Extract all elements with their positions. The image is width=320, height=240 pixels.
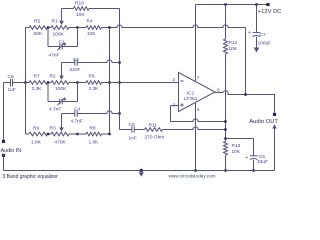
- terminal Audio IN: [2, 140, 5, 143]
- wire R10 left: [62, 8, 74, 10]
- wire band2 row to op-amp: [102, 82, 179, 84]
- svg-text:C1: C1: [59, 39, 65, 45]
- svg-text:C7: C7: [260, 32, 266, 38]
- label R4 value 10K: [87, 31, 96, 37]
- label C4: [74, 107, 80, 113]
- potentiometer R2: [51, 81, 78, 85]
- wire output: [215, 91, 275, 113]
- label C3 value 4.7nF: [49, 106, 61, 112]
- arrow R1 wiper: [59, 21, 64, 25]
- label Audio OUT: [249, 119, 278, 125]
- svg-text:10K: 10K: [232, 149, 241, 155]
- capacitor C3: [57, 98, 66, 106]
- label R13: [232, 143, 241, 149]
- svg-text:IC1: IC1: [187, 91, 195, 97]
- node band1-A junction: [108, 26, 111, 29]
- label R2 value 100K: [55, 86, 67, 92]
- label C2 value 22nF: [70, 67, 81, 73]
- svg-text:10K: 10K: [76, 12, 85, 18]
- caption www.circuitstoday.com: [169, 173, 216, 178]
- wire C2 to R2 wiper: [61, 63, 63, 76]
- wire C4 to R3 wiper: [61, 114, 63, 128]
- svg-text:R9: R9: [33, 126, 39, 132]
- label C7 value 100uF: [258, 41, 272, 47]
- svg-text:+: +: [245, 155, 248, 161]
- op-amp minus sign: [180, 80, 183, 82]
- resistor R6: [86, 81, 102, 85]
- arrow R2 wiper: [59, 76, 64, 80]
- label C7: [260, 32, 266, 38]
- resistor R9: [29, 132, 48, 136]
- wire R1-R4: [78, 27, 87, 29]
- svg-text:270 Ohm: 270 Ohm: [145, 135, 165, 141]
- wire R9-R3: [48, 133, 52, 135]
- wire C6 branch: [226, 139, 254, 156]
- wire pin7 supply: [195, 5, 197, 82]
- terminal audio in ground: [2, 154, 5, 157]
- label C6: [259, 154, 265, 160]
- svg-text:3.3K: 3.3K: [89, 86, 100, 92]
- wire C1 box right: [77, 28, 79, 47]
- svg-text:4.7nF: 4.7nF: [71, 118, 83, 124]
- wire C1 box bottom: [48, 46, 78, 48]
- label C5 value 1nF: [129, 135, 137, 141]
- resistor R4: [86, 26, 102, 30]
- svg-text:R7: R7: [34, 74, 40, 80]
- svg-text:R10: R10: [75, 1, 84, 7]
- ground symbol: [139, 169, 144, 177]
- wire R3-R8: [78, 133, 87, 135]
- wire pin3 stub: [171, 105, 179, 107]
- label R6: [89, 74, 95, 80]
- svg-text:R11: R11: [149, 123, 158, 129]
- wire R2-R6: [78, 82, 87, 84]
- svg-text:C2: C2: [73, 57, 79, 63]
- svg-text:50K: 50K: [34, 31, 43, 37]
- wire +12V rail: [196, 4, 269, 6]
- resistor R11: [145, 128, 163, 132]
- label C6 value 33uF: [257, 159, 268, 165]
- svg-text:4.7nF: 4.7nF: [49, 106, 61, 112]
- label pin 6: [217, 88, 220, 94]
- wire band3 left: [26, 133, 30, 135]
- label R11: [149, 123, 158, 129]
- capacitor C8: [11, 79, 13, 87]
- wire C3 box right: [77, 83, 79, 102]
- svg-text:1uF: 1uF: [8, 87, 16, 93]
- label R8: [90, 126, 96, 132]
- wire bias column: [225, 54, 227, 142]
- wire C8 to rail: [13, 82, 26, 84]
- resistor R12: [224, 39, 228, 54]
- svg-text:R4: R4: [87, 18, 93, 24]
- svg-text:R2: R2: [50, 74, 56, 80]
- capacitor C7: [253, 33, 261, 37]
- svg-text:47nF: 47nF: [49, 53, 60, 59]
- label C2: [73, 57, 79, 63]
- svg-text:R6: R6: [89, 74, 95, 80]
- svg-text:R3: R3: [50, 126, 56, 132]
- label R9 value 1.8K: [31, 140, 42, 146]
- capacitor C1: [57, 43, 66, 51]
- arrow audio out ground: [272, 124, 277, 128]
- wire C7 bottom lead: [256, 37, 258, 48]
- label C1: [59, 39, 65, 45]
- label C8: [8, 74, 14, 80]
- wire pin4 to ground: [195, 102, 197, 170]
- node R2 left: [47, 81, 50, 84]
- svg-text:100K: 100K: [55, 86, 67, 92]
- svg-text:R12: R12: [229, 40, 238, 46]
- wire output column: [245, 28, 247, 95]
- label R7: [34, 74, 40, 80]
- wire band2 left: [26, 82, 30, 84]
- svg-text:1.8K: 1.8K: [89, 140, 100, 146]
- wire audio in ground: [3, 155, 5, 170]
- label R9: [33, 126, 39, 132]
- capacitor C5: [132, 126, 134, 132]
- svg-text:470K: 470K: [55, 140, 67, 146]
- ground arrow C7: [254, 48, 260, 53]
- wire band1 row to output column: [102, 25, 246, 28]
- svg-text:+: +: [248, 30, 251, 36]
- wire R1 wiper: [61, 9, 63, 21]
- wire R10 right to B column: [89, 8, 120, 10]
- wire column B: [119, 9, 121, 130]
- node B-C4: [118, 112, 121, 115]
- svg-text:R8: R8: [90, 126, 96, 132]
- node R1 right: [76, 26, 79, 29]
- wire audio-in row: [4, 82, 11, 84]
- wire pin3 to bias node: [171, 119, 226, 122]
- label R10: [75, 1, 84, 7]
- potentiometer R3: [51, 132, 78, 136]
- wire R12 top lead: [225, 5, 227, 40]
- node output-band1: [244, 93, 247, 96]
- svg-text:7: 7: [197, 76, 200, 82]
- node B-C2: [118, 61, 121, 64]
- node A-band2: [108, 81, 111, 84]
- svg-text:3.3K: 3.3K: [32, 86, 43, 92]
- wire C4 row: [62, 111, 120, 114]
- wire band3 to column A: [102, 133, 110, 135]
- label +12V DC: [258, 9, 282, 15]
- label R5: [34, 18, 40, 24]
- resistor R8: [86, 132, 102, 136]
- op-amp plus sign: [180, 103, 183, 106]
- node R3 right: [76, 133, 79, 136]
- node R11-bias: [224, 128, 227, 131]
- label LF351: [184, 96, 198, 102]
- op-amp IC1 body: [179, 73, 216, 112]
- svg-text:1nF: 1nF: [129, 135, 137, 141]
- arrow R3 wiper: [59, 127, 64, 131]
- wire ground rail: [4, 170, 275, 172]
- wire R5-R1: [48, 27, 52, 29]
- node pin3-bias: [224, 120, 227, 123]
- svg-text:1.8K: 1.8K: [31, 140, 42, 146]
- label R6 value 3.3K: [89, 86, 100, 92]
- wire pin3 down: [170, 106, 172, 122]
- label R3: [50, 126, 56, 132]
- svg-text:3 Band graphic equalizer: 3 Band graphic equalizer: [3, 174, 59, 179]
- wire C1 box left: [47, 28, 49, 47]
- node R12 top: [224, 3, 227, 6]
- resistor R10: [74, 7, 90, 11]
- svg-text:R13: R13: [232, 143, 241, 149]
- label R12 value 10K: [229, 46, 238, 52]
- svg-text:10K: 10K: [87, 31, 96, 37]
- label R1 value 100K: [53, 31, 65, 37]
- label R7 value 3.3K: [32, 86, 43, 92]
- label R11 value 270 Ohm: [145, 135, 165, 141]
- svg-text:Audio IN: Audio IN: [1, 148, 22, 154]
- wire input rail: [25, 28, 27, 135]
- svg-text:22nF: 22nF: [70, 67, 81, 73]
- label R5 value 50K: [34, 31, 43, 37]
- caption 3 Band graphic equalizer: [3, 174, 59, 180]
- label R13 value 10K: [232, 149, 241, 155]
- wire audio in column: [3, 83, 5, 141]
- label pin 4: [197, 107, 200, 113]
- wire band1 input rail corner: [26, 27, 30, 29]
- node C7 top: [255, 3, 258, 6]
- svg-text:+12V DC: +12V DC: [258, 9, 281, 15]
- wire C3 box bottom: [48, 101, 78, 103]
- label R10 value 10K: [76, 12, 85, 18]
- capacitor C6: [250, 156, 258, 160]
- label R8 value 1.8K: [89, 140, 100, 146]
- label R3 value 470K: [55, 140, 67, 146]
- wire C2 row: [62, 60, 120, 63]
- label C8 value 1uF: [8, 87, 16, 93]
- svg-text:Audio OUT: Audio OUT: [249, 119, 278, 125]
- wire C5-R11: [134, 129, 144, 131]
- label R12: [229, 40, 238, 46]
- node B-band2: [118, 81, 121, 84]
- node R3 left: [47, 133, 50, 136]
- potentiometer R1: [51, 26, 78, 30]
- label C6 plus: [245, 155, 248, 161]
- svg-text:www.circuitstoday.com: www.circuitstoday.com: [169, 173, 216, 178]
- resistor R7: [29, 81, 48, 85]
- node R1 left: [47, 26, 50, 29]
- node C6-ground: [252, 169, 255, 172]
- label R4: [87, 18, 93, 24]
- wire column A: [109, 28, 111, 135]
- node input rail band2: [24, 81, 27, 84]
- label Audio IN: [1, 148, 22, 154]
- label R1: [52, 18, 58, 24]
- wire C6 bottom: [253, 160, 255, 171]
- terminal Audio OUT: [273, 113, 276, 116]
- label R2: [50, 74, 56, 80]
- wire C7 top lead: [256, 5, 258, 33]
- wire audio out ground: [274, 129, 276, 171]
- svg-text:33uF: 33uF: [257, 159, 268, 165]
- wire C3 box left: [47, 83, 49, 102]
- svg-text:10K: 10K: [229, 46, 238, 52]
- wire R13 bottom: [225, 155, 227, 171]
- label pin 3: [173, 102, 176, 108]
- node R13-ground: [224, 169, 227, 172]
- label pin 7: [197, 76, 200, 82]
- svg-text:R1: R1: [52, 18, 58, 24]
- svg-text:C8: C8: [8, 74, 14, 80]
- svg-text:2: 2: [173, 77, 176, 83]
- resistor R13: [224, 142, 228, 156]
- label pin 2: [173, 77, 176, 83]
- svg-text:100uF: 100uF: [258, 41, 272, 47]
- label IC1: [187, 91, 195, 97]
- svg-text:100K: 100K: [53, 31, 65, 37]
- node pin4-ground: [194, 169, 197, 172]
- wire R7-R2: [48, 82, 52, 84]
- node A-band3 end: [108, 133, 111, 136]
- label C4 value 4.7nF: [71, 118, 83, 124]
- terminal +12V DC: [266, 3, 269, 6]
- label C1 value 47nF: [49, 53, 60, 59]
- node C6 branch: [224, 137, 227, 140]
- wire R11 to bias node: [163, 127, 226, 130]
- resistor R5: [29, 26, 48, 30]
- wire B column corner to C5: [120, 114, 132, 130]
- capacitor C4: [75, 110, 77, 116]
- svg-text:C4: C4: [74, 107, 80, 113]
- svg-text:R5: R5: [34, 18, 40, 24]
- node R2 right: [76, 81, 79, 84]
- label C5: [129, 122, 135, 128]
- svg-text:C5: C5: [129, 122, 135, 128]
- capacitor C2: [75, 59, 77, 65]
- label C7 plus: [248, 30, 251, 36]
- svg-text:4: 4: [197, 107, 200, 113]
- svg-text:LF351: LF351: [184, 96, 198, 102]
